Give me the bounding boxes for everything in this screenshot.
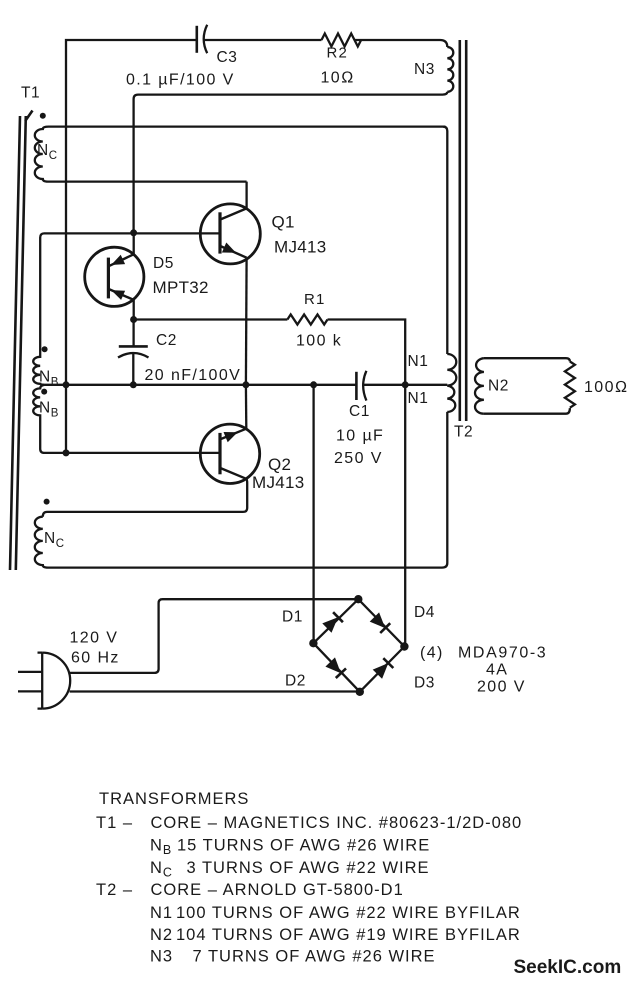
bridge rectifier frame bbox=[313, 599, 404, 692]
bridge node right bbox=[400, 642, 408, 650]
wire Q2 collector to NC lower bbox=[43, 479, 247, 517]
junction node D5 bottom bbox=[130, 316, 137, 323]
winding N3 bbox=[447, 47, 453, 92]
transistor Q1 bbox=[200, 204, 260, 264]
wire AC bottom bbox=[70, 690, 360, 692]
svg-text:NC: NC bbox=[44, 530, 65, 550]
bridge node bottom bbox=[356, 688, 364, 696]
svg-text:N2104 TURNS OF AWG #19 WIRE BY: N2104 TURNS OF AWG #19 WIRE BYFILAR bbox=[150, 926, 521, 944]
phase dot NC top bbox=[40, 113, 46, 119]
winding NC (T1 bottom) bbox=[35, 517, 442, 568]
svg-text:100 k: 100 k bbox=[296, 333, 342, 350]
svg-text:NC3 TURNS OF AWG #22 WIRE: NC3 TURNS OF AWG #22 WIRE bbox=[150, 859, 430, 880]
wire Q2 emitter to rail bbox=[245, 385, 248, 429]
wire R1 to right vertical bbox=[328, 320, 406, 647]
wire NC-bottom lead to Q1 collector bbox=[245, 182, 247, 208]
junction dot rail x246 bbox=[242, 381, 249, 388]
emitter rail right bbox=[364, 384, 448, 386]
svg-text:NB: NB bbox=[39, 400, 59, 420]
svg-text:Q2: Q2 bbox=[268, 455, 291, 474]
svg-text:N1: N1 bbox=[408, 390, 429, 407]
wire node to R1 bbox=[134, 318, 288, 320]
transformer T1 core bbox=[10, 111, 33, 571]
wire Q1 base line from NB1-top bbox=[40, 233, 219, 237]
svg-text:250 V: 250 V bbox=[334, 450, 383, 467]
svg-text:D2: D2 bbox=[285, 673, 306, 690]
svg-text:T1: T1 bbox=[21, 85, 40, 102]
svg-text:MJ413: MJ413 bbox=[252, 473, 305, 492]
junction node above D5 bbox=[130, 229, 137, 236]
svg-text:D3: D3 bbox=[414, 675, 435, 692]
svg-text:D1: D1 bbox=[282, 609, 303, 626]
svg-text:60 Hz: 60 Hz bbox=[71, 650, 120, 667]
svg-text:0.1 µF/100 V: 0.1 µF/100 V bbox=[126, 72, 235, 89]
svg-text:T2: T2 bbox=[454, 424, 473, 441]
svg-text:D5: D5 bbox=[153, 255, 174, 272]
junction dot Q2 base bbox=[63, 449, 70, 456]
svg-text:T2 –CORE – ARNOLD GT-5800-D1: T2 –CORE – ARNOLD GT-5800-D1 bbox=[96, 881, 404, 899]
diode D4 bbox=[370, 612, 391, 633]
transistor Q2 bbox=[200, 424, 259, 483]
svg-text:N3: N3 bbox=[414, 61, 435, 78]
capacitor C1 bbox=[356, 371, 366, 401]
bridge node top bbox=[354, 595, 362, 603]
svg-text:N2: N2 bbox=[488, 378, 509, 395]
junction dot rail x133 bbox=[130, 381, 137, 388]
resistor R1 bbox=[287, 315, 327, 325]
svg-text:C2: C2 bbox=[156, 332, 177, 349]
AC plug bbox=[18, 653, 70, 709]
wire top-left branch (C3 left lead + vertical to Q2 base) bbox=[66, 40, 196, 453]
winding NB lower bbox=[33, 385, 65, 453]
svg-text:Q1: Q1 bbox=[272, 213, 295, 232]
winding NC (T1 top) with leads bbox=[35, 127, 446, 182]
svg-text:10Ω: 10Ω bbox=[321, 70, 355, 87]
resistor 100 ohm load bbox=[565, 362, 575, 408]
wire N2 top lead bbox=[484, 358, 570, 361]
svg-text:(4): (4) bbox=[420, 645, 444, 662]
bridge node left bbox=[309, 639, 317, 647]
svg-text:MJ413: MJ413 bbox=[274, 238, 327, 257]
svg-text:200 V: 200 V bbox=[477, 679, 526, 696]
wire Q2 base line bbox=[66, 452, 219, 454]
winding N1 lower bbox=[447, 386, 455, 412]
svg-text:R2: R2 bbox=[327, 45, 349, 62]
phase dot NB lower bbox=[41, 389, 47, 395]
winding N1 upper bbox=[447, 354, 456, 386]
svg-text:MPT32: MPT32 bbox=[153, 278, 209, 297]
svg-text:10 µF: 10 µF bbox=[336, 428, 384, 445]
diode D2 bbox=[325, 657, 346, 678]
wire NC-top lead down right side to N1 bbox=[443, 127, 447, 354]
svg-text:MDA970-3: MDA970-3 bbox=[458, 645, 547, 662]
svg-text:NB15 TURNS OF AWG #26 WIRE: NB15 TURNS OF AWG #26 WIRE bbox=[150, 837, 430, 858]
wire NC bottom lead up to N1 lower bbox=[442, 412, 447, 568]
junction dot rail x313 bbox=[310, 381, 317, 388]
svg-text:4A: 4A bbox=[486, 662, 508, 679]
transformer T2 core bbox=[460, 40, 466, 421]
diode D3 bbox=[373, 658, 394, 679]
junction dot rail x66 bbox=[63, 381, 70, 388]
winding N2 bbox=[475, 358, 484, 414]
capacitor C2 bbox=[118, 320, 149, 385]
svg-text:R1: R1 bbox=[304, 291, 326, 308]
svg-text:N37 TURNS OF AWG #26 WIRE: N37 TURNS OF AWG #26 WIRE bbox=[150, 948, 436, 966]
svg-text:D4: D4 bbox=[414, 604, 435, 621]
svg-text:C3: C3 bbox=[217, 49, 238, 66]
capacitor C3 bbox=[197, 25, 207, 53]
wire AC top bbox=[70, 599, 359, 673]
device D5 MPT32 bbox=[85, 233, 144, 320]
svg-text:120 V: 120 V bbox=[70, 630, 119, 647]
wire bridge left vertical bbox=[312, 385, 314, 643]
junction dot rail x405 bbox=[402, 381, 409, 388]
phase dot NB upper bbox=[42, 346, 48, 352]
resistor R2 bbox=[322, 34, 362, 47]
svg-text:TRANSFORMERS: TRANSFORMERS bbox=[99, 790, 249, 808]
wire Q1 emitter to rail bbox=[245, 258, 248, 385]
svg-text:N1: N1 bbox=[408, 353, 429, 370]
emitter rail left bbox=[44, 384, 356, 386]
svg-text:T1 –CORE – MAGNETICS INC. #806: T1 –CORE – MAGNETICS INC. #80623-1/2D-08… bbox=[96, 814, 522, 832]
wire R2 to N3 bbox=[355, 40, 448, 47]
wire N2 bottom lead bbox=[484, 408, 570, 414]
wire C3 to R2 bbox=[205, 39, 322, 41]
svg-text:C1: C1 bbox=[349, 403, 370, 420]
phase dot NC bottom bbox=[44, 499, 50, 505]
svg-text:20 nF/100V: 20 nF/100V bbox=[145, 367, 242, 384]
svg-text:N1100 TURNS OF AWG #22 WIRE BY: N1100 TURNS OF AWG #22 WIRE BYFILAR bbox=[150, 904, 521, 922]
svg-text:SeekIC.com: SeekIC.com bbox=[514, 957, 622, 978]
diode D1 bbox=[322, 612, 343, 633]
svg-text:NC: NC bbox=[37, 142, 58, 162]
svg-text:100Ω: 100Ω bbox=[584, 379, 629, 396]
wire N3 bottom lead to node above D5 bbox=[134, 92, 448, 232]
winding NB upper bbox=[33, 238, 44, 385]
